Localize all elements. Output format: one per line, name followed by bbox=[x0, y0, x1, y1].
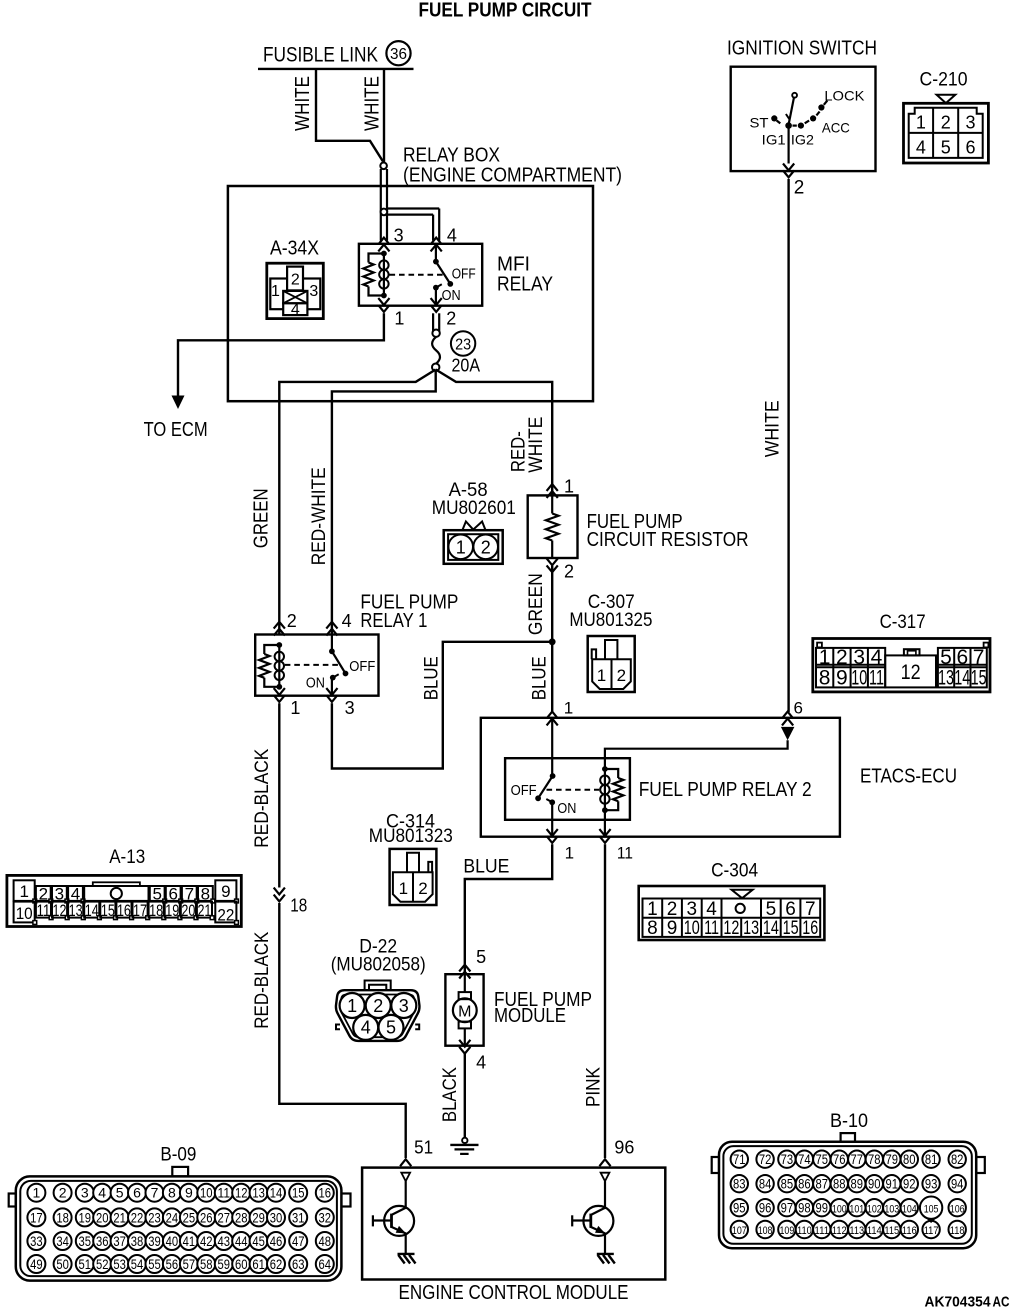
wire PINK bbox=[604, 844, 606, 1158]
svg-text:3: 3 bbox=[309, 283, 318, 300]
svg-text:111: 111 bbox=[814, 1225, 829, 1237]
svg-text:1: 1 bbox=[394, 309, 404, 329]
wire WHITE left bbox=[316, 70, 383, 162]
svg-text:OFF: OFF bbox=[452, 266, 476, 283]
svg-text:5: 5 bbox=[940, 646, 952, 669]
svg-text:27: 27 bbox=[218, 1209, 231, 1225]
svg-text:60: 60 bbox=[235, 1256, 248, 1272]
svg-text:10: 10 bbox=[200, 1185, 213, 1201]
svg-text:WHITE: WHITE bbox=[526, 417, 547, 473]
svg-text:RELAY 1: RELAY 1 bbox=[360, 610, 427, 632]
svg-text:96: 96 bbox=[759, 1200, 772, 1215]
label RED-BLACK lower bbox=[252, 931, 273, 1028]
MFI relay pin 1 bbox=[378, 298, 404, 328]
svg-text:4: 4 bbox=[871, 646, 883, 669]
svg-text:IG1: IG1 bbox=[762, 132, 786, 148]
svg-text:11: 11 bbox=[36, 901, 50, 920]
svg-text:1: 1 bbox=[565, 843, 574, 862]
svg-text:10: 10 bbox=[684, 918, 700, 939]
svg-text:24: 24 bbox=[166, 1209, 179, 1225]
fuel pump module pin 4 bbox=[459, 1040, 486, 1073]
svg-text:1: 1 bbox=[271, 283, 280, 300]
svg-text:9: 9 bbox=[221, 882, 230, 901]
svg-text:47: 47 bbox=[292, 1233, 305, 1249]
svg-text:37: 37 bbox=[113, 1233, 126, 1249]
label 20A bbox=[452, 355, 481, 375]
svg-text:1: 1 bbox=[33, 1185, 41, 1201]
svg-text:3: 3 bbox=[853, 646, 865, 669]
svg-text:117: 117 bbox=[924, 1225, 939, 1237]
svg-text:RED-WHITE: RED-WHITE bbox=[309, 467, 330, 565]
svg-text:92: 92 bbox=[903, 1176, 916, 1191]
svg-text:B-09: B-09 bbox=[160, 1144, 196, 1165]
connector C-210 bbox=[904, 69, 989, 163]
svg-text:7: 7 bbox=[151, 1185, 159, 1201]
svg-text:42: 42 bbox=[200, 1233, 213, 1249]
svg-text:25: 25 bbox=[183, 1209, 196, 1225]
MFI relay coil bbox=[363, 251, 388, 299]
svg-text:99: 99 bbox=[816, 1200, 829, 1215]
svg-text:12: 12 bbox=[901, 661, 921, 684]
svg-text:63: 63 bbox=[292, 1256, 305, 1272]
svg-text:RED-BLACK: RED-BLACK bbox=[252, 931, 273, 1028]
svg-text:95: 95 bbox=[733, 1200, 746, 1215]
svg-text:71: 71 bbox=[733, 1152, 746, 1167]
svg-text:1: 1 bbox=[564, 476, 574, 496]
svg-text:81: 81 bbox=[925, 1152, 938, 1167]
svg-text:22: 22 bbox=[217, 906, 234, 925]
relay 2 coil to pin 11 bbox=[604, 810, 606, 837]
svg-text:ON: ON bbox=[306, 675, 325, 692]
label GREEN 2 bbox=[526, 573, 547, 635]
svg-text:29: 29 bbox=[252, 1209, 265, 1225]
svg-text:115: 115 bbox=[884, 1225, 899, 1237]
svg-text:2: 2 bbox=[446, 309, 456, 329]
relay 1 coil bbox=[259, 642, 284, 690]
MFI relay pin 2 bbox=[431, 298, 457, 328]
svg-text:3: 3 bbox=[394, 226, 404, 246]
transistor Q1 bbox=[373, 1181, 416, 1263]
svg-text:AK704354: AK704354 bbox=[925, 1294, 992, 1310]
svg-text:32: 32 bbox=[319, 1209, 332, 1225]
svg-text:MODULE: MODULE bbox=[494, 1005, 566, 1027]
svg-text:C-304: C-304 bbox=[711, 860, 758, 881]
svg-text:10: 10 bbox=[16, 904, 33, 923]
svg-text:53: 53 bbox=[113, 1256, 126, 1272]
svg-text:5: 5 bbox=[476, 947, 486, 967]
svg-text:5: 5 bbox=[116, 1185, 124, 1201]
svg-text:3: 3 bbox=[81, 1185, 89, 1201]
svg-text:75: 75 bbox=[816, 1152, 829, 1167]
svg-text:IG2: IG2 bbox=[791, 132, 814, 148]
connector A-34X bbox=[267, 238, 324, 319]
svg-text:13: 13 bbox=[938, 667, 954, 690]
svg-text:ACC: ACC bbox=[822, 119, 850, 135]
label BLUE right bbox=[529, 656, 550, 700]
fusible link 36 label bbox=[258, 44, 414, 69]
svg-text:2: 2 bbox=[287, 611, 297, 631]
svg-text:26: 26 bbox=[200, 1209, 213, 1225]
engine control module box bbox=[362, 1168, 665, 1304]
svg-text:62: 62 bbox=[270, 1256, 283, 1272]
label WHITE ignition bbox=[763, 400, 784, 457]
svg-text:90: 90 bbox=[868, 1176, 881, 1191]
transistor Q2 bbox=[572, 1181, 615, 1263]
direction triangle bbox=[781, 727, 795, 740]
svg-text:64: 64 bbox=[319, 1256, 332, 1272]
svg-text:39: 39 bbox=[148, 1233, 161, 1249]
wire WHITE ignition bbox=[787, 179, 789, 712]
svg-text:116: 116 bbox=[902, 1225, 917, 1237]
fuse 20A double line bbox=[433, 313, 439, 331]
svg-text:8: 8 bbox=[819, 667, 831, 690]
wire MFI pin 1 to ECM bbox=[178, 313, 384, 396]
ignition switch pin 2 bbox=[783, 126, 804, 199]
svg-text:85: 85 bbox=[781, 1176, 794, 1191]
svg-text:4: 4 bbox=[476, 1053, 486, 1073]
svg-text:15: 15 bbox=[101, 901, 115, 920]
svg-text:6: 6 bbox=[965, 138, 975, 158]
svg-text:101: 101 bbox=[849, 1203, 864, 1215]
svg-text:CIRCUIT RESISTOR: CIRCUIT RESISTOR bbox=[587, 529, 749, 551]
MFI relay pin 3 bbox=[378, 226, 403, 252]
svg-text:91: 91 bbox=[886, 1176, 899, 1191]
MFI relay box bbox=[359, 244, 553, 306]
svg-text:108: 108 bbox=[758, 1225, 773, 1237]
label WHITE right bbox=[362, 76, 384, 131]
svg-text:1: 1 bbox=[819, 646, 831, 669]
svg-text:ON: ON bbox=[442, 287, 461, 304]
connector D-22 bbox=[331, 937, 426, 1041]
svg-text:22: 22 bbox=[131, 1209, 144, 1225]
svg-text:14: 14 bbox=[270, 1185, 283, 1201]
svg-text:18: 18 bbox=[149, 901, 163, 920]
svg-text:1: 1 bbox=[347, 996, 357, 1016]
svg-text:WHITE: WHITE bbox=[362, 76, 384, 131]
svg-text:118: 118 bbox=[950, 1225, 965, 1237]
MFI relay pin 4 bbox=[431, 226, 457, 252]
svg-text:41: 41 bbox=[183, 1233, 196, 1249]
connector B-10 bbox=[712, 1111, 985, 1248]
svg-text:8: 8 bbox=[647, 918, 658, 939]
svg-text:105: 105 bbox=[924, 1203, 939, 1215]
svg-text:2: 2 bbox=[794, 177, 805, 198]
svg-text:50: 50 bbox=[56, 1256, 69, 1272]
svg-text:OFF: OFF bbox=[349, 658, 375, 675]
svg-text:6: 6 bbox=[133, 1185, 141, 1201]
label PINK bbox=[584, 1067, 605, 1107]
svg-text:MU801323: MU801323 bbox=[369, 826, 453, 847]
svg-text:LOCK: LOCK bbox=[824, 88, 865, 104]
svg-text:2: 2 bbox=[481, 537, 491, 557]
connector C-314 bbox=[369, 811, 453, 905]
svg-text:14: 14 bbox=[763, 918, 779, 939]
fuel pump relay 2 box bbox=[505, 758, 812, 820]
svg-text:WHITE: WHITE bbox=[763, 400, 784, 457]
svg-text:FUEL PUMP CIRCUIT: FUEL PUMP CIRCUIT bbox=[419, 0, 592, 21]
svg-text:A-34X: A-34X bbox=[270, 238, 319, 260]
svg-text:89: 89 bbox=[851, 1176, 864, 1191]
ETACS pin 1 top bbox=[547, 698, 574, 725]
svg-text:IGNITION SWITCH: IGNITION SWITCH bbox=[727, 37, 877, 59]
svg-text:112: 112 bbox=[832, 1225, 847, 1237]
svg-text:4: 4 bbox=[361, 1018, 371, 1038]
svg-text:2: 2 bbox=[836, 646, 848, 669]
fuel pump module pin 5 bbox=[459, 947, 486, 978]
connector C-304 bbox=[639, 860, 825, 940]
svg-text:104: 104 bbox=[902, 1203, 917, 1215]
node junction dot bbox=[549, 638, 556, 645]
svg-text:93: 93 bbox=[925, 1176, 938, 1191]
connector A-13 bbox=[7, 847, 241, 926]
svg-text:12: 12 bbox=[53, 901, 67, 920]
svg-text:31: 31 bbox=[292, 1209, 305, 1225]
svg-text:23: 23 bbox=[148, 1209, 161, 1225]
relay 2 switch bbox=[511, 718, 600, 837]
svg-text:MU802601: MU802601 bbox=[432, 498, 516, 519]
svg-text:87: 87 bbox=[816, 1176, 829, 1191]
svg-text:2: 2 bbox=[617, 666, 626, 685]
svg-text:4: 4 bbox=[291, 302, 300, 319]
document number AK704354AC bbox=[925, 1294, 1010, 1310]
svg-text:49: 49 bbox=[30, 1256, 43, 1272]
connector C-317 bbox=[813, 612, 990, 692]
fuel pump circuit resistor pin 1 bbox=[547, 476, 574, 498]
svg-text:(ENGINE COMPARTMENT): (ENGINE COMPARTMENT) bbox=[403, 165, 622, 187]
fuel pump circuit resistor bbox=[528, 495, 749, 558]
svg-text:28: 28 bbox=[235, 1209, 248, 1225]
svg-text:77: 77 bbox=[851, 1152, 864, 1167]
fuel pump circuit resistor pin 2 bbox=[547, 558, 574, 581]
svg-text:59: 59 bbox=[218, 1256, 231, 1272]
svg-text:ETACS-ECU: ETACS-ECU bbox=[860, 765, 957, 787]
svg-text:A-13: A-13 bbox=[109, 847, 145, 868]
connector A-58 bbox=[432, 480, 516, 564]
svg-text:BLUE: BLUE bbox=[463, 856, 509, 877]
svg-text:ST: ST bbox=[750, 115, 769, 131]
svg-text:2: 2 bbox=[564, 562, 574, 582]
svg-text:1: 1 bbox=[647, 899, 658, 920]
svg-text:100: 100 bbox=[832, 1203, 847, 1215]
ETACS-ECU box bbox=[481, 718, 957, 837]
svg-text:C-210: C-210 bbox=[920, 69, 968, 90]
svg-text:46: 46 bbox=[270, 1233, 283, 1249]
label BLUE left bbox=[422, 656, 443, 700]
wire split to RED-WHITE right bbox=[436, 370, 553, 496]
title FUEL PUMP CIRCUIT bbox=[419, 0, 592, 21]
ECM pin 51 bbox=[400, 1138, 433, 1182]
svg-text:94: 94 bbox=[951, 1176, 964, 1191]
junction connector circle bbox=[380, 163, 387, 170]
svg-text:FUSIBLE LINK: FUSIBLE LINK bbox=[263, 44, 378, 67]
svg-text:86: 86 bbox=[798, 1176, 811, 1191]
svg-text:76: 76 bbox=[833, 1152, 846, 1167]
svg-text:4: 4 bbox=[98, 1185, 106, 1201]
svg-text:M: M bbox=[458, 1004, 471, 1021]
wire ETACS internal to relay2 coil bbox=[605, 740, 788, 769]
svg-text:13: 13 bbox=[743, 918, 759, 939]
svg-text:AC: AC bbox=[993, 1294, 1010, 1310]
svg-text:9: 9 bbox=[836, 667, 848, 690]
svg-text:96: 96 bbox=[614, 1138, 634, 1158]
svg-text:15: 15 bbox=[971, 667, 987, 690]
svg-text:106: 106 bbox=[950, 1203, 965, 1215]
svg-text:7: 7 bbox=[805, 899, 816, 920]
svg-text:33: 33 bbox=[30, 1233, 43, 1249]
circled 36 bbox=[386, 41, 410, 65]
svg-text:4: 4 bbox=[916, 138, 926, 158]
svg-text:3: 3 bbox=[345, 698, 355, 718]
svg-text:3: 3 bbox=[399, 996, 409, 1016]
wire BLACK to ground bbox=[464, 1053, 466, 1138]
ignition switch box bbox=[731, 67, 876, 171]
svg-text:6: 6 bbox=[956, 646, 968, 669]
svg-text:114: 114 bbox=[867, 1225, 882, 1237]
svg-text:RELAY BOX: RELAY BOX bbox=[403, 145, 500, 167]
svg-text:B-10: B-10 bbox=[830, 1111, 868, 1132]
svg-text:98: 98 bbox=[798, 1200, 811, 1215]
svg-text:15: 15 bbox=[783, 918, 799, 939]
svg-text:11: 11 bbox=[869, 667, 884, 690]
svg-text:84: 84 bbox=[759, 1176, 772, 1191]
ignition switch rotary bbox=[750, 88, 866, 148]
svg-text:1: 1 bbox=[564, 698, 573, 717]
svg-text:74: 74 bbox=[798, 1152, 811, 1167]
svg-text:10: 10 bbox=[851, 667, 867, 690]
svg-text:ENGINE CONTROL MODULE: ENGINE CONTROL MODULE bbox=[399, 1282, 629, 1304]
label WHITE left bbox=[292, 76, 314, 131]
svg-text:BLACK: BLACK bbox=[440, 1067, 461, 1122]
svg-text:23: 23 bbox=[455, 336, 471, 353]
wire GREEN resistor to junction bbox=[551, 566, 553, 642]
relay 1 pin 1 bbox=[274, 688, 301, 718]
ETACS pin 11 bbox=[599, 829, 633, 862]
svg-text:TO ECM: TO ECM bbox=[144, 419, 208, 441]
ECM pin 96 bbox=[599, 1138, 634, 1182]
svg-text:MFI: MFI bbox=[497, 254, 530, 276]
svg-text:11: 11 bbox=[704, 918, 719, 939]
svg-text:40: 40 bbox=[166, 1233, 179, 1249]
svg-text:61: 61 bbox=[252, 1256, 265, 1272]
svg-text:79: 79 bbox=[886, 1152, 899, 1167]
svg-text:54: 54 bbox=[131, 1256, 144, 1272]
svg-text:5: 5 bbox=[766, 899, 777, 920]
svg-text:1: 1 bbox=[290, 698, 300, 718]
svg-text:51: 51 bbox=[414, 1138, 433, 1158]
svg-text:12: 12 bbox=[235, 1185, 248, 1201]
svg-text:8: 8 bbox=[168, 1185, 176, 1201]
wire BLUE junction to ETACS bbox=[551, 642, 553, 712]
circled 23 bbox=[451, 331, 475, 355]
svg-text:80: 80 bbox=[903, 1152, 916, 1167]
svg-text:44: 44 bbox=[235, 1233, 248, 1249]
svg-text:17: 17 bbox=[30, 1209, 43, 1225]
svg-text:2: 2 bbox=[291, 272, 300, 289]
svg-text:48: 48 bbox=[319, 1233, 332, 1249]
wire split to RED-WHITE left bbox=[332, 370, 436, 635]
svg-text:30: 30 bbox=[270, 1209, 283, 1225]
junction circle node bbox=[381, 209, 388, 216]
svg-text:19: 19 bbox=[165, 901, 179, 920]
svg-text:55: 55 bbox=[148, 1256, 161, 1272]
svg-text:GREEN: GREEN bbox=[526, 573, 547, 635]
svg-text:34: 34 bbox=[56, 1233, 69, 1249]
svg-text:9: 9 bbox=[185, 1185, 193, 1201]
svg-text:52: 52 bbox=[96, 1256, 109, 1272]
svg-text:38: 38 bbox=[131, 1233, 144, 1249]
svg-text:1: 1 bbox=[19, 882, 28, 901]
relay 1 pin 2 bbox=[274, 611, 297, 636]
connector B-09 bbox=[9, 1144, 351, 1280]
svg-text:35: 35 bbox=[79, 1233, 92, 1249]
arrow TO ECM bbox=[144, 396, 208, 441]
relay 1 switch bbox=[285, 635, 376, 696]
ignition switch label bbox=[727, 37, 877, 59]
svg-text:102: 102 bbox=[867, 1203, 882, 1215]
svg-text:14: 14 bbox=[954, 667, 970, 690]
svg-text:18: 18 bbox=[56, 1209, 69, 1225]
svg-text:73: 73 bbox=[781, 1152, 794, 1167]
fuel pump relay 1 box bbox=[255, 635, 378, 696]
svg-text:17: 17 bbox=[133, 901, 147, 920]
svg-text:12: 12 bbox=[723, 918, 739, 939]
svg-text:19: 19 bbox=[79, 1209, 92, 1225]
svg-text:5: 5 bbox=[386, 1018, 396, 1038]
svg-text:2: 2 bbox=[667, 899, 678, 920]
svg-text:FUEL PUMP RELAY 2: FUEL PUMP RELAY 2 bbox=[639, 779, 812, 801]
svg-text:110: 110 bbox=[797, 1225, 812, 1237]
svg-text:13: 13 bbox=[69, 901, 83, 920]
svg-text:83: 83 bbox=[733, 1176, 746, 1191]
svg-text:57: 57 bbox=[183, 1256, 196, 1272]
svg-text:36: 36 bbox=[96, 1233, 109, 1249]
svg-text:21: 21 bbox=[197, 901, 211, 920]
wire BLUE to fuel pump module bbox=[465, 844, 552, 973]
label GREEN bbox=[250, 488, 272, 548]
svg-text:BLUE: BLUE bbox=[422, 656, 443, 700]
ground symbol bbox=[450, 1138, 478, 1154]
svg-text:16: 16 bbox=[319, 1185, 332, 1201]
relay box (engine compartment) bbox=[228, 145, 622, 402]
svg-text:1: 1 bbox=[597, 666, 606, 685]
svg-text:56: 56 bbox=[166, 1256, 179, 1272]
svg-text:2: 2 bbox=[373, 996, 383, 1016]
relay 1 pin 3 bbox=[326, 688, 354, 718]
svg-text:4: 4 bbox=[342, 611, 352, 631]
fuel pump module bbox=[445, 974, 592, 1045]
svg-text:6: 6 bbox=[785, 899, 796, 920]
svg-text:107: 107 bbox=[732, 1225, 747, 1237]
svg-text:3: 3 bbox=[965, 113, 975, 133]
svg-text:58: 58 bbox=[200, 1256, 213, 1272]
svg-text:GREEN: GREEN bbox=[250, 488, 272, 548]
svg-text:78: 78 bbox=[868, 1152, 881, 1167]
svg-text:MU801325: MU801325 bbox=[569, 610, 652, 631]
svg-text:RELAY: RELAY bbox=[497, 274, 553, 296]
svg-text:51: 51 bbox=[79, 1256, 92, 1272]
svg-text:BLUE: BLUE bbox=[529, 656, 550, 700]
svg-text:20: 20 bbox=[96, 1209, 109, 1225]
svg-text:11: 11 bbox=[218, 1185, 231, 1201]
wire BLUE relay1 pin3 bbox=[332, 642, 552, 769]
ETACS pin 6 bbox=[782, 698, 803, 725]
wire split to GREEN bbox=[279, 370, 435, 635]
svg-text:4: 4 bbox=[706, 899, 717, 920]
relay 2 coil bbox=[600, 766, 623, 813]
svg-text:3: 3 bbox=[687, 899, 698, 920]
connector C-307 bbox=[569, 592, 652, 692]
svg-text:97: 97 bbox=[781, 1200, 794, 1215]
